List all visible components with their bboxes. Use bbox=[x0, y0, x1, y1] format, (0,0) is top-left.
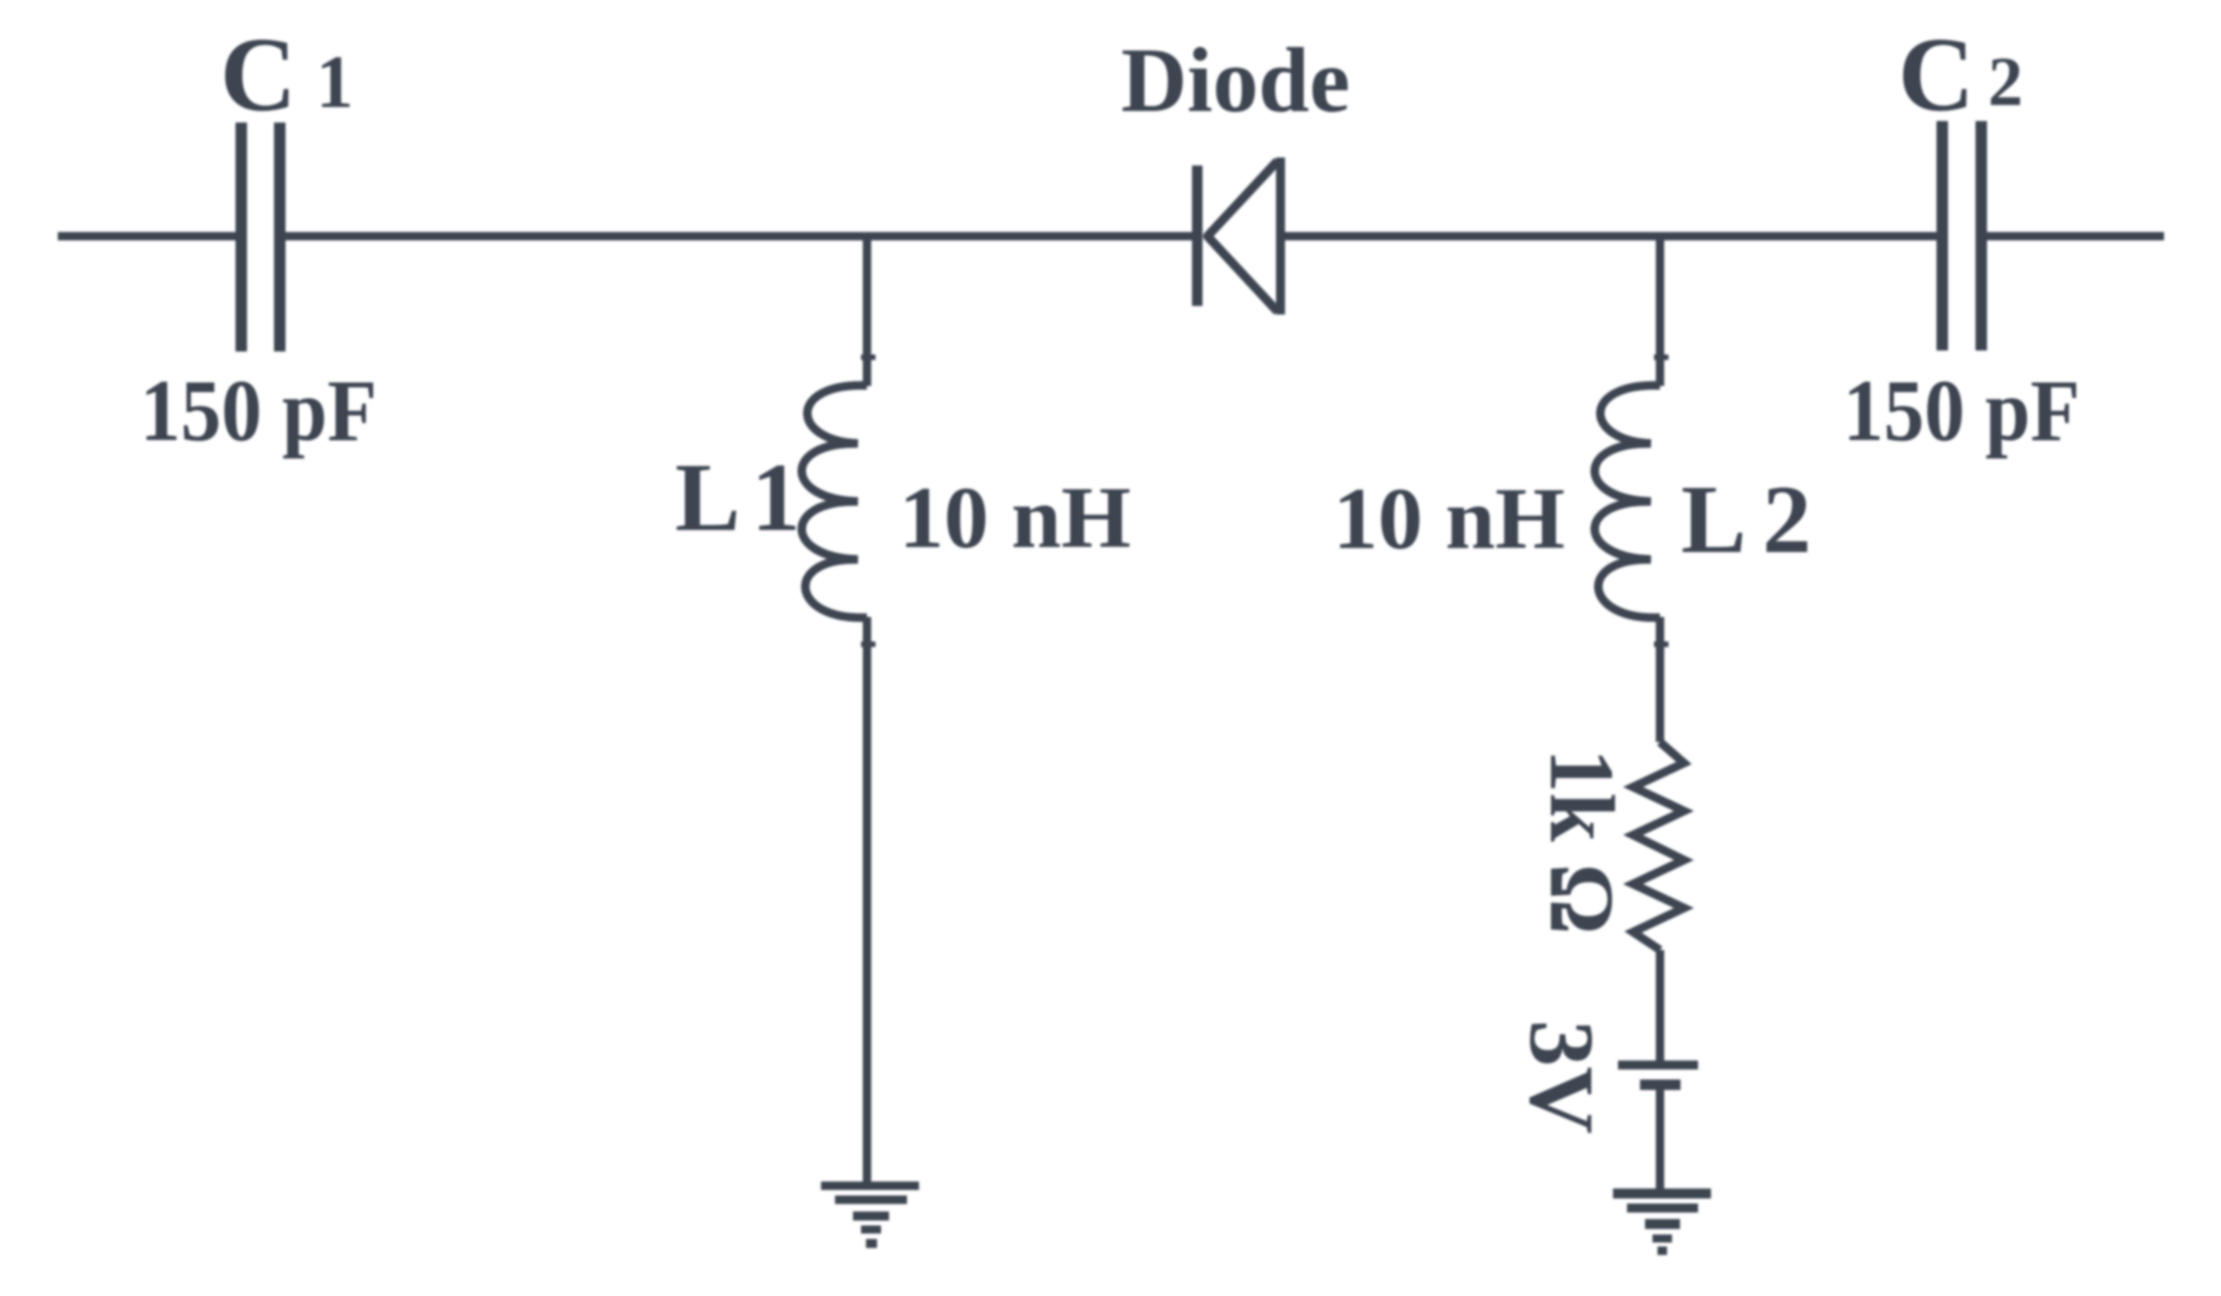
terminal tick bbox=[1654, 355, 1669, 361]
wire bbox=[1656, 236, 1664, 386]
svg-text:10 nH: 10 nH bbox=[899, 470, 1131, 567]
capacitor C2 bbox=[1937, 121, 1988, 351]
svg-text:3V: 3V bbox=[1511, 1020, 1613, 1134]
inductor L2 bbox=[1595, 385, 1660, 617]
svg-text:L2: L2 bbox=[1681, 466, 1827, 574]
wire bbox=[58, 232, 236, 240]
ground bbox=[821, 1182, 919, 1249]
wire bbox=[1283, 232, 1938, 240]
capacitor C1 bbox=[236, 123, 286, 352]
wire bbox=[1656, 1090, 1664, 1190]
svg-text:10 nH: 10 nH bbox=[1333, 471, 1565, 568]
wire bbox=[1656, 617, 1664, 742]
svg-text:1k Ω: 1k Ω bbox=[1531, 749, 1633, 935]
svg-text:1: 1 bbox=[316, 41, 354, 124]
terminal tick bbox=[1654, 642, 1669, 648]
ground bbox=[1613, 1189, 1711, 1256]
diode D1 bbox=[1192, 158, 1281, 315]
svg-text:L1: L1 bbox=[675, 444, 811, 552]
inductor L1 bbox=[802, 385, 867, 617]
svg-text:150 pF: 150 pF bbox=[140, 363, 377, 460]
svg-text:Diode: Diode bbox=[1121, 29, 1350, 131]
svg-text:C: C bbox=[1898, 16, 1975, 133]
terminal tick bbox=[861, 355, 876, 361]
svg-text:2: 2 bbox=[1988, 44, 2023, 121]
battery V1 bbox=[1618, 1061, 1698, 1091]
wire bbox=[286, 232, 1197, 240]
resistor R1 bbox=[1633, 742, 1684, 950]
terminal tick bbox=[861, 642, 876, 648]
wire bbox=[863, 236, 871, 386]
svg-text:C: C bbox=[220, 16, 297, 133]
wire bbox=[1983, 232, 2165, 240]
wire bbox=[863, 617, 871, 1184]
wire bbox=[1656, 950, 1664, 1062]
svg-text:150 pF: 150 pF bbox=[1843, 363, 2080, 460]
